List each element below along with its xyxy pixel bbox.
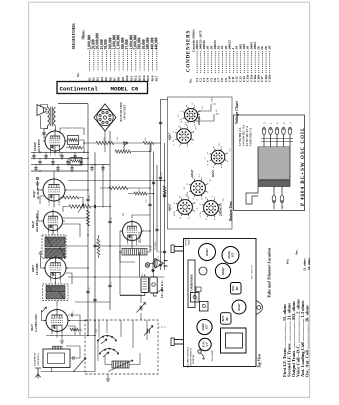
wire bus row 4 bbox=[31, 170, 88, 172]
svg-text:SW: SW bbox=[216, 109, 218, 112]
svg-text:ANTENNA: ANTENNA bbox=[37, 353, 40, 366]
resistor table row R15 bbox=[146, 37, 150, 81]
chassis tube 25Z6GT bbox=[197, 319, 212, 334]
resistor table row R3 bbox=[96, 33, 100, 82]
screen resistor box R13 bbox=[68, 136, 79, 145]
winding resistance row: Second I.F. Trans. bbox=[286, 303, 291, 377]
wires T4 bbox=[41, 256, 89, 284]
oscillator grid resistor R1 bbox=[70, 328, 79, 331]
resistor R16 top bbox=[143, 142, 161, 145]
ground below switch box bbox=[106, 374, 110, 381]
condenser table headers bbox=[189, 29, 196, 83]
antenna series capacitor bbox=[66, 346, 80, 360]
tube socket bottom view 25L6GT (voltage chart) bbox=[197, 195, 225, 220]
svg-text:P 4604 BC+SW OSC COIL: P 4604 BC+SW OSC COIL bbox=[301, 127, 306, 206]
svg-text:Top View: Top View bbox=[258, 353, 262, 368]
svg-text:C1: C1 bbox=[73, 310, 75, 313]
volume control potentiometer R9 bbox=[69, 204, 91, 213]
junction blob bbox=[152, 269, 155, 272]
svg-text:Sec.: Sec. bbox=[295, 249, 299, 255]
svg-text:OSC: OSC bbox=[96, 328, 98, 333]
svg-text:6SK7: 6SK7 bbox=[205, 248, 209, 256]
condenser table row C9 bbox=[224, 45, 228, 82]
volume coupling capacitor bbox=[94, 205, 95, 208]
chassis speaker opening bbox=[221, 328, 247, 353]
pilot lamp bbox=[145, 263, 150, 268]
svg-text:R17: R17 bbox=[155, 75, 159, 81]
svg-text:C19: C19 bbox=[161, 172, 163, 176]
chassis volume shaft bbox=[171, 338, 184, 346]
wire top feed to chart bbox=[161, 99, 168, 101]
wire speaker to transformer bbox=[41, 105, 48, 129]
resistor table row R6 bbox=[108, 37, 112, 81]
on-off switch bbox=[156, 289, 163, 294]
svg-text:R1: R1 bbox=[81, 328, 83, 331]
resistor table row R8 bbox=[117, 35, 121, 82]
svg-text:6SQ7: 6SQ7 bbox=[190, 169, 194, 177]
output transformer T1 bbox=[48, 107, 56, 127]
wire vertical bus i bbox=[160, 99, 162, 270]
octal socket label bbox=[120, 102, 127, 122]
IF plate row wire bbox=[68, 276, 165, 278]
condenser table row C17 bbox=[253, 42, 257, 82]
svg-text:STA. CIRCUIT: STA. CIRCUIT bbox=[251, 265, 254, 279]
condenser table row C21 bbox=[267, 45, 271, 82]
condenser table row C6 bbox=[213, 40, 217, 82]
wire vertical bus g bbox=[153, 152, 155, 263]
speaker bbox=[37, 105, 46, 116]
resistor table row R11 bbox=[129, 35, 133, 82]
resistor table row R13 bbox=[138, 37, 142, 81]
condenser table row C7 bbox=[217, 45, 221, 82]
osc coil part number bbox=[301, 127, 306, 206]
oscillator grid capacitor C1 bbox=[68, 313, 80, 335]
svg-text:I.F.=456 K.C.: I.F.=456 K.C. bbox=[160, 280, 164, 298]
winding resistance table headers Pri Sec bbox=[286, 249, 299, 264]
condenser table row C15 bbox=[246, 45, 250, 82]
chassis dial pointer tab bbox=[256, 301, 263, 315]
winding resistance row: First I.F. Trans. bbox=[282, 304, 287, 377]
winding resistance row: Output Trans. bbox=[291, 301, 296, 377]
bus junction dots bbox=[39, 142, 96, 172]
svg-text:VOLUME CONTROL: VOLUME CONTROL bbox=[188, 346, 190, 368]
oscillator padder coil bbox=[108, 360, 133, 372]
chassis tube 6SK7 bbox=[199, 244, 216, 261]
svg-text:25Z6GT: 25Z6GT bbox=[197, 113, 201, 125]
condenser table row C12 bbox=[235, 45, 239, 82]
condenser table row C18 bbox=[257, 45, 261, 82]
wire vertical bus h bbox=[156, 165, 158, 252]
resistor table row R10 bbox=[125, 39, 129, 81]
svg-text:OSC: OSC bbox=[232, 285, 235, 291]
condenser table row C10 bbox=[227, 40, 231, 82]
condenser table row C13 bbox=[238, 44, 242, 82]
1st IF transformer bbox=[43, 284, 69, 301]
external antenna symbol bbox=[35, 368, 41, 378]
2nd det tube label bbox=[31, 213, 39, 232]
bottom view label (voltage chart) bbox=[229, 201, 233, 222]
svg-text:TUNING: TUNING bbox=[155, 241, 157, 250]
svg-text:BC: BC bbox=[226, 317, 229, 321]
wires rectifier bbox=[120, 215, 150, 249]
capacitor C18 top bbox=[114, 141, 143, 144]
filter choke bbox=[122, 249, 147, 256]
line cord resistor blocks bbox=[141, 277, 157, 293]
condenser table row C1 bbox=[195, 40, 199, 82]
resistor table row R12 bbox=[134, 35, 138, 82]
chassis tube 6SQ7 bbox=[215, 263, 230, 278]
wire socket to bus bbox=[104, 131, 106, 152]
resistor table row R4 bbox=[100, 39, 104, 81]
resistor table headers bbox=[76, 30, 86, 77]
osc coil mounting bracket bbox=[246, 187, 258, 205]
svg-text:6SA7: 6SA7 bbox=[211, 169, 215, 177]
converter tube label bbox=[30, 313, 38, 332]
resistor R3 under T2 bbox=[60, 196, 83, 207]
svg-text:25L6GT: 25L6GT bbox=[219, 204, 223, 216]
tuning gang capacitor SW bbox=[144, 326, 153, 336]
condenser table row C5 bbox=[209, 45, 213, 82]
capacitor C15 at output plate bbox=[42, 133, 45, 134]
power plug bbox=[150, 259, 168, 269]
tube socket bottom view 6SK7 (voltage chart) bbox=[168, 193, 199, 219]
wires around output stage bbox=[55, 140, 96, 152]
oscillator coil diagram box bbox=[234, 115, 305, 211]
loop antenna box bbox=[43, 349, 70, 368]
svg-text:Continental: Continental bbox=[60, 86, 99, 93]
resistor R10 bbox=[128, 192, 154, 195]
electrolytic capacitors on bus rows bbox=[32, 152, 104, 172]
svg-text:5.A: 5.A bbox=[184, 122, 187, 126]
chassis antenna terminal bbox=[198, 350, 204, 360]
winding resistance sec values bbox=[303, 257, 312, 271]
svg-text:6SQ7: 6SQ7 bbox=[221, 267, 225, 275]
converter tube 6SA7 bbox=[44, 308, 70, 338]
ground T2 grid bbox=[35, 181, 39, 185]
svg-text:5.A: 5.A bbox=[201, 106, 204, 110]
osc coil terminal lugs bottom (pins 7 6) bbox=[272, 187, 284, 208]
loop loading coil bbox=[53, 346, 63, 349]
wire bus row 3 bbox=[31, 164, 110, 166]
chassis spare hole bbox=[199, 267, 207, 275]
resistor R8 bbox=[115, 150, 151, 153]
IF amplifier tube label bbox=[31, 263, 39, 275]
converter signal arrow bbox=[42, 307, 47, 312]
wire antenna to circuit bbox=[41, 368, 95, 372]
svg-text:Voltage Chart: Voltage Chart bbox=[234, 100, 239, 124]
svg-text:ON ANT.: ON ANT. bbox=[185, 237, 188, 246]
svg-text:OUTPUT: OUTPUT bbox=[37, 138, 41, 152]
ground T5 cathode bbox=[60, 339, 64, 343]
wire B+ bus row 1 bbox=[31, 151, 88, 153]
wire vertical bus b bbox=[94, 152, 96, 371]
wire top row to bus bbox=[58, 103, 88, 105]
chassis tube 25A6GT bbox=[222, 247, 239, 264]
svg-text:440,000: 440,000 bbox=[155, 37, 159, 49]
external antenna label bbox=[34, 352, 41, 366]
condenser table row C19 bbox=[260, 45, 264, 82]
tube socket bottom view 6SQ7 (voltage chart) bbox=[184, 169, 212, 200]
loop coupling arrow bbox=[73, 358, 86, 373]
svg-text:1st AUD.: 1st AUD. bbox=[36, 187, 40, 199]
condenser table row C4 bbox=[206, 45, 210, 82]
to loop label bbox=[211, 350, 214, 362]
detector row wire bbox=[66, 245, 150, 247]
grid capacitor T2 bbox=[36, 178, 39, 179]
resistor table row R17 bbox=[155, 37, 159, 81]
svg-text:.05: .05 bbox=[267, 45, 271, 50]
tuning gang capacitor BC bbox=[137, 295, 146, 320]
resistor table row R2 bbox=[92, 39, 96, 81]
wire vertical bus d bbox=[102, 165, 104, 208]
tuning label schematic bbox=[155, 241, 157, 250]
svg-text:C18b: C18b bbox=[267, 74, 271, 82]
osc coil terminal lugs top (pins 5 1 4 2 3) bbox=[262, 122, 292, 147]
osc coil winding bbox=[258, 147, 290, 187]
wires switch assembly bbox=[88, 320, 147, 365]
wire top bus bend bbox=[150, 143, 152, 152]
model label box bbox=[57, 82, 148, 94]
wire vertical bus e bbox=[119, 231, 121, 295]
resistor R14 top bbox=[96, 141, 114, 144]
wires T5 bbox=[42, 301, 89, 338]
svg-text:RESISTORS: RESISTORS bbox=[71, 23, 76, 49]
svg-text:COND: COND bbox=[212, 97, 214, 103]
svg-text:OF SOCKET: OF SOCKET bbox=[124, 104, 127, 119]
svg-text:PLUG: PLUG bbox=[158, 255, 160, 261]
2nd IF transformer bbox=[42, 235, 66, 259]
resistor table title bbox=[71, 23, 76, 49]
1st audio tube label bbox=[32, 187, 40, 199]
svg-text:TO LOOP: TO LOOP bbox=[211, 350, 214, 362]
grid resistor box T2 bbox=[70, 158, 82, 166]
svg-text:C7: C7 bbox=[205, 342, 209, 346]
winding resistance row: Osc. Ant. Coil bbox=[304, 305, 309, 377]
svg-text:18. ohms: 18. ohms bbox=[307, 257, 311, 270]
wire converter cathode row bbox=[46, 336, 95, 339]
svg-text:CONDENSER: CONDENSER bbox=[190, 274, 194, 293]
resistor table row R5 bbox=[104, 39, 108, 81]
IF frequency label bbox=[160, 280, 164, 298]
band switch wafer 1 bbox=[97, 335, 117, 344]
osc coil lug strip bbox=[261, 139, 293, 142]
svg-text:Osc. Ant. Coil ...............: Osc. Ant. Coil ....................... 2… bbox=[304, 305, 309, 377]
wire vertical bus f bbox=[149, 143, 151, 252]
converter plate row wire bbox=[75, 295, 142, 302]
svg-text:No.: No. bbox=[189, 78, 193, 83]
resistor table row R7 bbox=[113, 35, 117, 82]
chassis tuning shaft bbox=[171, 245, 184, 253]
svg-text:2nd DET-AVC: 2nd DET-AVC bbox=[35, 213, 39, 232]
svg-text:1st DET.OSC.: 1st DET.OSC. bbox=[34, 313, 38, 332]
condenser table row C20 bbox=[264, 45, 268, 82]
AVC resistor vertical bbox=[87, 210, 90, 226]
on ant shaft label bbox=[185, 237, 191, 246]
chassis shaft tuning dashes bbox=[151, 246, 167, 252]
chart socket bracket wires bbox=[194, 104, 219, 121]
junction dots mid bbox=[87, 151, 165, 337]
1st audio tube 6SQ7 bbox=[41, 177, 67, 207]
2nd det tube 6SQ7 bbox=[41, 210, 64, 237]
svg-text:21. ohms: 21. ohms bbox=[303, 258, 307, 271]
resistor table row R1 bbox=[87, 35, 91, 82]
tube socket bottom view 6SA7 (voltage chart) bbox=[205, 143, 232, 177]
long wire audio row bbox=[68, 180, 165, 182]
svg-text:6SA7: 6SA7 bbox=[237, 303, 241, 311]
coupling capacitors column bbox=[86, 122, 166, 300]
resistor table row R9 bbox=[121, 37, 125, 81]
resistor table row R14 bbox=[142, 39, 146, 81]
chassis trimmer ANT BC bbox=[221, 313, 232, 325]
chassis IF transformer cans bbox=[191, 287, 209, 311]
wires T3 bbox=[38, 210, 88, 237]
top view label bbox=[258, 353, 262, 368]
wires power section bbox=[120, 252, 157, 296]
winding resistance row: Voice Coil&#8212;D.C. bbox=[295, 299, 300, 377]
output tube label bbox=[33, 138, 41, 152]
svg-text:Tube and Trimmer Location: Tube and Trimmer Location bbox=[267, 247, 272, 298]
osc coil bottom lug wires bbox=[274, 203, 282, 210]
band switch wafer 2 bbox=[99, 348, 119, 357]
condenser table row C8 bbox=[220, 45, 224, 82]
condenser table row C11 bbox=[231, 47, 235, 82]
condenser table row C16 bbox=[249, 42, 253, 82]
wire vertical bus a bbox=[87, 104, 89, 336]
wire bus row 2 bbox=[31, 157, 88, 159]
wires volume row bbox=[63, 207, 110, 213]
tube socket bottom view 6SK7 (voltage chart) bbox=[168, 122, 198, 149]
svg-text:Bottom View: Bottom View bbox=[229, 201, 233, 222]
chassis rear circuit note bbox=[251, 265, 254, 279]
octal socket bottom view diamond bbox=[94, 104, 116, 131]
rectifier tube label bbox=[123, 213, 142, 243]
winding resistance row: Ant. Loading Coil bbox=[300, 300, 305, 377]
rectifier tube 25Z6GT bbox=[120, 220, 143, 247]
svg-text:Pri.: Pri. bbox=[286, 258, 290, 264]
resistor R7 bbox=[100, 186, 150, 189]
chassis shaft volume dashes bbox=[158, 326, 167, 328]
svg-text:C9: C9 bbox=[97, 241, 99, 244]
output tube V4 25A6GT bbox=[43, 129, 67, 157]
svg-text:1-6 BC PRI .5 Λ: 1-6 BC PRI .5 Λ bbox=[250, 128, 253, 146]
ground T4 grid bbox=[38, 252, 42, 256]
svg-text:IN REAR: IN REAR bbox=[192, 354, 195, 364]
volume control in rear label bbox=[188, 346, 196, 368]
svg-text:Ohms: Ohms bbox=[82, 30, 86, 40]
svg-text:RES: RES bbox=[142, 273, 144, 277]
wires T2 bbox=[38, 171, 89, 208]
component value labels bbox=[65, 136, 168, 333]
chassis trimmer OSC BC bbox=[231, 283, 242, 295]
chassis pilot light bbox=[199, 338, 211, 350]
IF amplifier tube 6SK7 bbox=[43, 256, 68, 285]
svg-text:I.F.AMP.: I.F.AMP. bbox=[35, 263, 39, 275]
band switch dashed enclosure bbox=[85, 320, 158, 374]
chassis tube 6SA7 bbox=[232, 300, 246, 314]
condenser table row C3 bbox=[202, 40, 206, 82]
voltage chart label bbox=[234, 100, 239, 124]
resistor table row R16 bbox=[150, 37, 154, 81]
resistor R12 bbox=[69, 146, 82, 149]
condenser table title bbox=[187, 30, 192, 72]
wires choke bbox=[120, 252, 150, 262]
svg-text:SHAFT: SHAFT bbox=[187, 237, 190, 245]
svg-text:25Z6GT: 25Z6GT bbox=[138, 231, 142, 243]
svg-text:MODEL C6: MODEL C6 bbox=[111, 86, 139, 93]
voltage chart box bbox=[168, 97, 233, 229]
svg-text:BC: BC bbox=[236, 286, 239, 290]
svg-text:No.: No. bbox=[76, 72, 80, 77]
chassis layout box bbox=[184, 239, 257, 367]
volume takeoff arrow bbox=[124, 142, 128, 152]
svg-text:ON-OFF SWITCH: ON-OFF SWITCH bbox=[190, 348, 192, 366]
resistor R16 vertical on bus j bbox=[163, 186, 166, 196]
condenser table row C2 bbox=[198, 30, 202, 82]
chassis gang condenser bbox=[188, 260, 195, 308]
condenser table row C14 bbox=[242, 44, 246, 82]
svg-text:ANT: ANT bbox=[222, 315, 225, 321]
AVC resistor vertical 2 bbox=[97, 235, 100, 258]
wire transformer secondary to plate bbox=[44, 126, 84, 138]
wire vertical bus c bbox=[109, 131, 111, 310]
tube socket bottom view 25Z6GT (voltage chart) bbox=[178, 102, 204, 126]
svg-text:PM: PM bbox=[123, 213, 125, 216]
tube and trimmer location label bbox=[267, 247, 272, 298]
osc coil connection table bbox=[239, 125, 253, 146]
wire vertical bus j bbox=[164, 143, 166, 270]
